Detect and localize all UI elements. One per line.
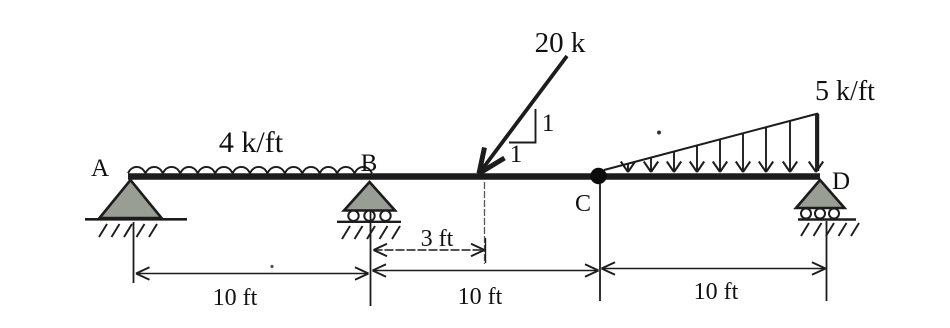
support A pin triangle [100,180,162,218]
extension line at A [133,222,135,283]
speck near load triangle [657,131,661,135]
reference line at load point [484,182,486,264]
svg-text:10 ft: 10 ft [213,285,258,311]
label 4 k/ft [219,126,284,159]
triangular load 5 k/ft outline [604,114,818,172]
dimension line C-D [602,262,826,274]
svg-text:3 ft: 3 ft [421,226,454,252]
force 20 k arrow [479,56,567,174]
slope label 1 vertical [542,110,555,137]
svg-text:1: 1 [542,110,555,137]
slope label 1 horizontal [510,141,523,168]
speck near dimension [270,265,273,268]
support D hatching [801,223,859,236]
svg-text:1: 1 [510,141,523,168]
dimension line A-B [136,267,369,279]
support A ground line [85,218,187,221]
support D ground line [798,218,856,220]
hinge C [590,168,606,184]
label B [361,150,378,177]
svg-text:20 k: 20 k [535,27,586,59]
triangular load arrows [621,114,823,172]
label 20 k [535,27,586,59]
extension tick at 3 ft [485,238,487,263]
dimension line 3 ft [374,244,485,256]
dimension label 10 ft (C-D) [694,279,739,305]
svg-text:10 ft: 10 ft [694,279,739,305]
svg-text:A: A [91,155,109,182]
support A hatching [99,224,157,237]
extension line at B [370,211,372,306]
support D rollers [801,209,839,219]
svg-text:5 k/ft: 5 k/ft [815,76,875,107]
distributed load 4 k/ft scallops [128,167,372,173]
extension line at C [599,184,601,301]
label D [832,168,850,195]
support B roller triangle [344,182,395,211]
beam A-D [128,173,820,179]
svg-text:4 k/ft: 4 k/ft [219,126,284,159]
svg-text:D: D [832,168,850,195]
label 5 k/ft [815,76,875,107]
dimension label 3 ft [421,226,454,252]
label C [575,191,591,217]
support B rollers [348,211,390,221]
svg-text:B: B [361,150,378,177]
dimension label 10 ft (B-C) [458,284,503,310]
support B ground line [337,221,401,223]
slope triangle [509,109,536,143]
support B hatching [342,226,400,239]
svg-text:10 ft: 10 ft [458,284,503,310]
extension line at D [826,221,828,301]
support D roller triangle [796,180,845,208]
svg-text:C: C [575,191,591,217]
dimension label 10 ft (A-B) [213,285,258,311]
dimension line B-C [373,264,599,276]
label A [91,155,109,182]
